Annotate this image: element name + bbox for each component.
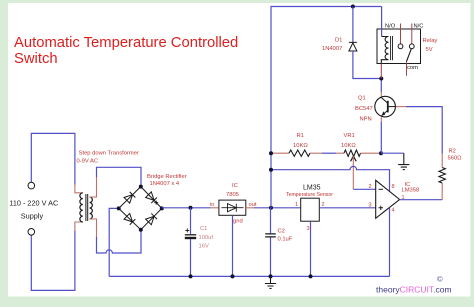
svg-text:Relay: Relay [423,38,438,44]
AC supply terminal top [28,182,35,189]
AC supply terminal bottom [28,229,35,236]
svg-text:10KΩ: 10KΩ [293,143,308,149]
wire: secondary bottom to bridge bottom vertex (hops over minus wire) [97,230,142,253]
svg-text:LM35: LM35 [303,185,321,192]
regulator IC 7805 [219,200,246,215]
svg-text:Supply: Supply [21,212,44,221]
wire: Q1 emitter down to VR1 junction [380,117,382,122]
svg-text:100uf: 100uf [199,235,214,241]
diode D1 [352,7,354,43]
transformer T1 core [86,194,88,221]
wire: supply loop top [31,133,75,185]
ground rail wire [109,275,389,277]
svg-text:VR1: VR1 [344,133,355,139]
wire: LM35 pin2 to op-amp pin3 [319,207,376,209]
potentiometer VR1 label [341,133,356,149]
svg-text:NPN: NPN [360,117,372,123]
wire: op-amp pin4 to ground rail [389,208,391,277]
wire: wiper to op-amp pin2 [353,188,376,190]
svg-text:Step down Transformer: Step down Transformer [79,151,139,157]
op-amp pin labels [369,184,405,214]
svg-text:IC: IC [232,183,238,189]
transformer T1 secondary lead bottom [90,219,97,238]
wire: LM35 pin3 to ground rail [310,221,312,276]
svg-text:LM358: LM358 [402,187,420,193]
transformer T1 primary lead bottom [75,222,83,231]
node: C1 top junction [189,206,193,210]
relay N/C contact pin [411,24,413,44]
svg-text:C1: C1 [200,226,207,232]
svg-text:8: 8 [392,184,395,190]
ground symbol main [265,276,276,288]
node: bridge top vertex [139,185,143,189]
wire: junction to ground (right) [381,152,404,154]
svg-text:Bridge Rectifier: Bridge Rectifier [147,174,187,180]
node: top rail D1 tap [351,5,355,9]
node: LM35 pin3 bottom [309,274,313,278]
resistor R2 label [448,149,463,162]
svg-text:gnd: gnd [233,219,243,225]
relay core [391,36,393,60]
transformer T1 primary coil [80,193,83,222]
wire: bridge left vertex (minus) down to ground rail [109,208,119,276]
resistor R2 [441,183,443,200]
transistor Q1 [375,96,396,117]
relay switch arm [407,49,412,62]
transistor Q1 label [355,96,373,123]
capacitor C2 [270,208,272,234]
wire: +5V vertical riser [271,7,382,208]
svg-text:theoryCIRCUIT.com: theoryCIRCUIT.com [376,285,452,295]
wire: op-amp output to R2 bottom [400,199,443,201]
node: bridge right vertex [160,206,164,210]
svg-text:Switch: Switch [14,51,58,67]
svg-text:0.1uF: 0.1uF [278,237,293,243]
svg-text:BC547: BC547 [355,106,373,112]
svg-text:3: 3 [369,203,372,209]
svg-text:N/C: N/C [414,24,424,30]
capacitor C1 [190,208,192,234]
node: bridge left vertex [117,206,121,210]
bridge plus mark [154,201,158,205]
potentiometer VR1 wiper arrow [351,156,357,161]
bridge label [147,174,187,187]
svg-text:in: in [210,202,215,208]
wire: +5V to op-amp pin8 (hops over wiper wire) [271,166,390,191]
transformer T1 primary lead top [75,184,83,193]
transformer T1 secondary coil [90,197,93,219]
wire: Q1 collector up to relay/D1 junction [380,79,382,93]
svg-text:N/O: N/O [385,24,396,30]
svg-text:out: out [249,202,257,208]
svg-text:©: © [437,275,443,284]
wire: 7805 out to +5V node [246,207,254,209]
relay RL1 [377,29,421,64]
potentiometer VR1 [336,152,344,154]
bridge diode bottom-left [124,213,135,224]
op-amp label [402,182,420,193]
svg-text:1N4007 x 4: 1N4007 x 4 [150,181,180,187]
wire: 7805 gnd down to ground rail [232,215,234,276]
svg-text:4: 4 [392,208,395,214]
node: C1 bottom [189,274,193,278]
svg-text:C2: C2 [278,229,285,235]
svg-text:R1: R1 [297,133,304,139]
wire: R2 top to Q1 base [406,107,442,154]
diode D1 label [322,38,342,53]
sensor LM35 [301,198,320,221]
relay N/O contact pin [400,24,402,44]
resistor R1 [271,152,289,154]
svg-text:Q1: Q1 [358,96,366,102]
svg-text:2: 2 [322,202,325,208]
svg-text:1N4007: 1N4007 [322,46,342,52]
wire between R1 and VR1 [322,152,336,154]
resistor R1 label [293,133,308,149]
wire: bridge plus output rail to 7805 in [162,207,211,209]
relay coil return lead [380,64,382,79]
AC supply label [9,199,58,221]
wire: secondary top to bridge top vertex [97,167,142,186]
svg-text:Temperature Sensor: Temperature Sensor [286,192,333,198]
svg-text:3: 3 [307,226,310,232]
capacitor C2 label [278,229,293,243]
svg-text:560Ω: 560Ω [448,156,463,162]
wire: +5V into relay coil [381,7,383,37]
node: 7805 gnd bottom [231,274,235,278]
bridge diode top-right [146,192,157,203]
svg-text:16V: 16V [199,244,209,250]
bridge rectifier edges [119,187,162,230]
wire: supply loop bottom [31,230,75,290]
transformer T1 secondary lead top [90,176,97,197]
node: C2 bottom [269,274,273,278]
relay coil [381,37,388,64]
regulator 7805 label [210,183,257,225]
node: R1 rail left [269,151,273,155]
svg-text:Automatic Temperature Controll: Automatic Temperature Controlled [14,35,238,51]
title text [14,35,238,67]
node: bridge bottom vertex [139,228,143,232]
node: pin8 tap on +5V riser [269,168,273,172]
relay labels [385,24,437,72]
svg-text:5V: 5V [426,47,433,53]
svg-text:0-9V AC: 0-9V AC [77,159,99,165]
node: +5V junction at 7805 out [269,206,273,210]
svg-text:D1: D1 [335,38,342,44]
relay com pin [406,62,408,76]
capacitor C1 label [199,226,214,250]
op-amp U1 LM358 [376,180,400,218]
svg-text:R2: R2 [449,149,456,155]
node: relay coil / D1 / collector junction [379,77,383,81]
svg-text:7805: 7805 [226,192,239,198]
svg-text:110 - 220 V AC: 110 - 220 V AC [9,199,58,208]
svg-text:10KΩ: 10KΩ [341,143,356,149]
svg-text:com: com [407,65,418,71]
node: VR1 right / Q1 emitter junction [379,151,383,155]
transformer label [77,151,139,165]
bridge diode top-left [124,192,135,203]
svg-text:2: 2 [369,184,372,190]
ground symbol right [398,153,409,169]
bridge diode bottom-right [146,213,157,224]
svg-text:1: 1 [295,202,298,208]
